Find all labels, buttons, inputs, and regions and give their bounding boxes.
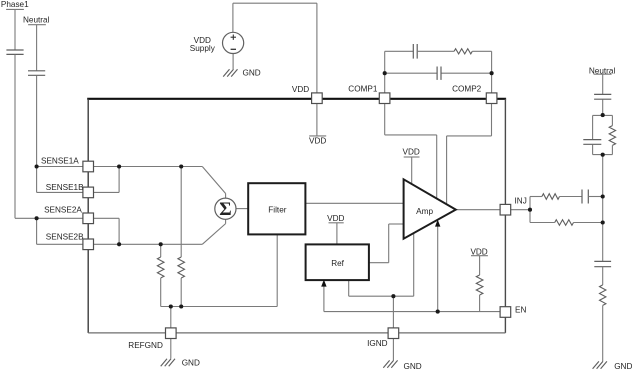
svg-text:Filter: Filter — [268, 205, 286, 214]
svg-text:SENSE1A: SENSE1A — [41, 156, 79, 165]
svg-text:COMP2: COMP2 — [452, 85, 482, 94]
svg-text:Amp: Amp — [416, 207, 433, 216]
svg-text:REFGND: REFGND — [128, 341, 163, 350]
svg-text:SENSE2B: SENSE2B — [46, 233, 84, 242]
svg-text:VDD: VDD — [327, 214, 344, 223]
svg-text:VDD: VDD — [292, 85, 309, 94]
svg-text:Neutral: Neutral — [589, 67, 616, 76]
svg-text:GND: GND — [243, 68, 261, 77]
svg-text:GND: GND — [614, 362, 632, 371]
svg-text:VDD: VDD — [309, 137, 326, 146]
svg-text:Ref: Ref — [331, 259, 344, 268]
svg-text:SENSE1B: SENSE1B — [46, 183, 84, 192]
svg-text:Phase1: Phase1 — [1, 0, 29, 9]
svg-text:EN: EN — [515, 306, 526, 315]
svg-text:GND: GND — [404, 362, 422, 371]
svg-text:COMP1: COMP1 — [348, 85, 378, 94]
svg-text:SENSE2A: SENSE2A — [44, 206, 82, 215]
svg-text:Σ: Σ — [219, 199, 231, 220]
svg-text:IGND: IGND — [367, 339, 388, 348]
svg-text:GND: GND — [182, 358, 200, 367]
svg-text:INJ: INJ — [515, 196, 527, 205]
svg-text:Neutral: Neutral — [23, 16, 50, 25]
svg-text:Supply: Supply — [190, 44, 216, 53]
svg-text:VDD: VDD — [403, 148, 420, 157]
svg-text:VDD: VDD — [470, 247, 487, 256]
